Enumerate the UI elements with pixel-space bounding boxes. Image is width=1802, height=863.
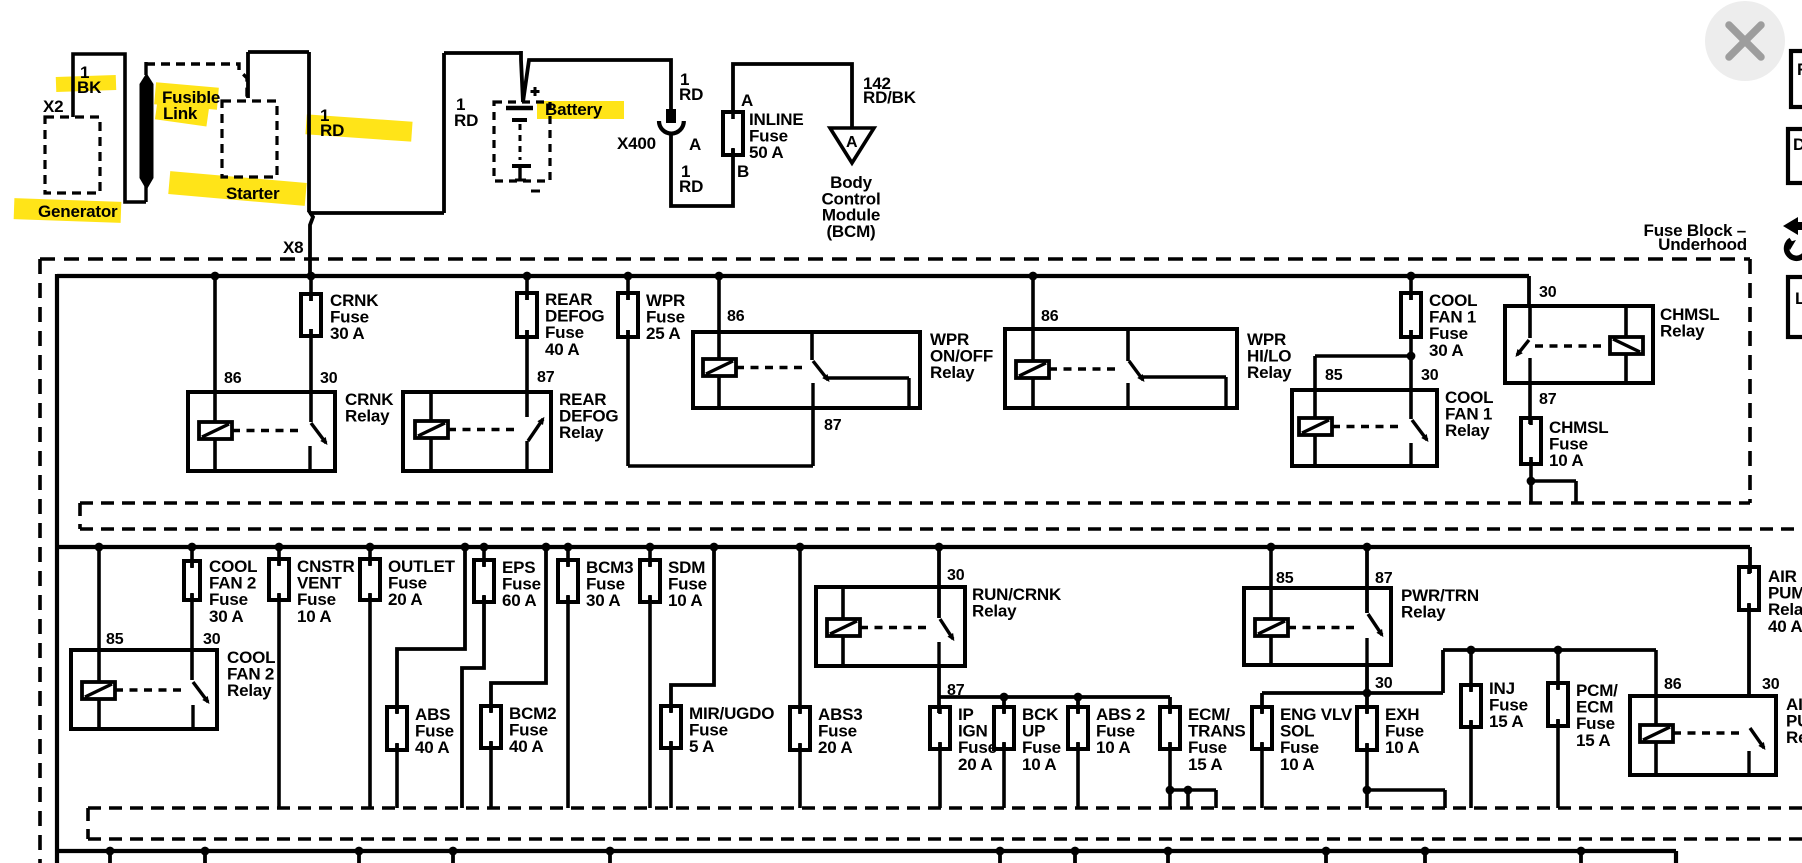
svg-text:85: 85 <box>1276 570 1294 587</box>
svg-text:30: 30 <box>1375 675 1393 692</box>
svg-text:87: 87 <box>537 369 555 386</box>
node CHMSL fuse output <box>1527 477 1536 486</box>
highlight Generator <box>14 198 122 223</box>
fuse IP IGN 20A <box>930 707 950 749</box>
svg-text:30 A: 30 A <box>586 591 620 610</box>
svg-text:Relay: Relay <box>1445 421 1490 440</box>
svg-text:Relay: Relay <box>930 363 975 382</box>
battery plates <box>506 106 533 111</box>
wire CHMSL relay 30 feed <box>1527 276 1531 306</box>
svg-text:Link: Link <box>163 104 198 123</box>
fuse ABS3 20A <box>790 707 810 750</box>
relay WPR HI/LO <box>1005 329 1237 408</box>
svg-text:B: B <box>737 162 749 181</box>
svg-text:X400: X400 <box>617 134 656 153</box>
svg-text:87: 87 <box>824 417 842 434</box>
wire PWR/TRN 30 distribution <box>1365 665 1369 713</box>
fuse PCM/ECM 15A <box>1556 650 1560 689</box>
wire CRNK 86 <box>213 276 217 422</box>
wire BCM2 fuse feed <box>491 547 546 712</box>
bus top rail <box>57 274 1529 278</box>
fuse MIR/UGDO 5A <box>661 706 681 748</box>
node COOL FAN1 85 branch <box>1407 352 1416 361</box>
svg-text:Generator: Generator <box>38 202 118 221</box>
fuse ECM/TRANS 15A <box>1160 707 1180 749</box>
relay RUN/CRNK <box>816 587 965 666</box>
wire X400 to inline fuse <box>671 134 733 206</box>
fuse INJ 15A <box>1469 650 1473 691</box>
svg-text:Underhood: Underhood <box>1658 235 1747 254</box>
svg-text:Relay: Relay <box>559 423 604 442</box>
fuse CRNK 30A <box>301 294 321 336</box>
wire inline fuse to BCM <box>733 64 852 128</box>
svg-text:40 A: 40 A <box>415 738 449 757</box>
svg-text:87: 87 <box>1539 391 1557 408</box>
wire generator to fusible link <box>73 54 146 202</box>
wire ABS fuse feed <box>397 547 465 713</box>
svg-text:10 A: 10 A <box>1280 755 1314 774</box>
svg-text:40 A: 40 A <box>545 340 579 359</box>
svg-text:30 A: 30 A <box>1429 341 1463 360</box>
offpage arrow left <box>1783 217 1802 235</box>
starter (dashed box) <box>222 101 277 177</box>
svg-text:Relay: Relay <box>1786 728 1802 747</box>
svg-text:25 A: 25 A <box>646 324 680 343</box>
svg-text:D: D <box>1793 135 1802 154</box>
junction dots bottom rail and stubs <box>106 847 115 856</box>
relay CHMSL <box>1505 306 1653 383</box>
svg-text:30: 30 <box>947 567 965 584</box>
svg-text:10 A: 10 A <box>1549 451 1583 470</box>
wire ECM/TRANS outputs <box>1168 743 1172 808</box>
svg-text:20 A: 20 A <box>818 738 852 757</box>
svg-text:Relay: Relay <box>1247 363 1292 382</box>
fuse CHMSL 10A <box>1528 383 1532 424</box>
svg-text:RD: RD <box>679 85 703 104</box>
svg-text:30 A: 30 A <box>209 607 243 626</box>
svg-text:86: 86 <box>224 370 242 387</box>
svg-text:RD: RD <box>320 121 344 140</box>
wire EXH outputs <box>1365 744 1369 808</box>
svg-text:Relay: Relay <box>1660 322 1705 341</box>
battery - sign <box>531 190 540 193</box>
fuse ENG VLV SOL 10A <box>1252 707 1272 749</box>
highlight 1 RD <box>305 114 412 141</box>
svg-text:60 A: 60 A <box>502 591 536 610</box>
svg-text:86: 86 <box>1664 676 1682 693</box>
wire MIR/UGDO fuse feed <box>671 547 714 712</box>
fuse EPS 60A <box>474 560 494 602</box>
wire WPR fuse to relay 87 <box>811 408 815 466</box>
fuse CNSTR VENT 10A <box>269 559 289 600</box>
wire RUN/CRNK 87 rail <box>937 666 941 713</box>
svg-text:Relay: Relay <box>1401 603 1446 622</box>
svg-text:30: 30 <box>1421 367 1439 384</box>
svg-text:15 A: 15 A <box>1576 731 1610 750</box>
wire into battery positive <box>521 51 523 102</box>
svg-text:30: 30 <box>320 370 338 387</box>
svg-text:A: A <box>846 134 858 151</box>
svg-text:86: 86 <box>727 308 745 325</box>
wire battery branch y213 <box>309 211 444 215</box>
highlight 1 BK <box>56 75 116 92</box>
svg-text:86: 86 <box>1041 308 1059 325</box>
svg-text:RD: RD <box>454 111 478 130</box>
fuse EXH 10A <box>1357 707 1377 750</box>
highlight Fusible Link <box>154 82 219 109</box>
fuse COOL FAN 1 30A <box>1401 293 1421 337</box>
svg-text:L: L <box>1795 289 1802 308</box>
bus middle rail <box>57 545 1750 549</box>
svg-text:10 A: 10 A <box>1096 738 1130 757</box>
offpage box R (cut) <box>1791 51 1802 107</box>
svg-text:Relay: Relay <box>345 407 390 426</box>
svg-text:30: 30 <box>1539 284 1557 301</box>
highlight Battery <box>537 101 624 119</box>
relay CRNK <box>188 392 335 471</box>
wire EPS output jog <box>462 596 484 808</box>
fuse BCM2 40A <box>481 706 501 748</box>
svg-text:10 A: 10 A <box>1385 738 1419 757</box>
fuse ABS 2 10A <box>1068 707 1088 749</box>
fusible link F1 <box>144 184 147 202</box>
bus left vertical <box>55 274 59 863</box>
svg-text:Battery: Battery <box>545 100 603 119</box>
inner dashed band upper <box>80 501 1750 505</box>
svg-text:(BCM): (BCM) <box>826 222 875 241</box>
inline fuse 50A <box>723 112 743 155</box>
bus bottom rail <box>57 849 1676 853</box>
close button <box>1705 1 1785 81</box>
svg-text:A: A <box>741 91 753 110</box>
svg-text:RD/BK: RD/BK <box>863 88 917 107</box>
svg-text:40 A: 40 A <box>509 737 543 756</box>
svg-text:R: R <box>1797 60 1802 79</box>
svg-text:Relay: Relay <box>972 602 1017 621</box>
relay AIR PUMP <box>1630 696 1776 775</box>
svg-text:85: 85 <box>106 631 124 648</box>
inner dashed band lower <box>88 806 1802 810</box>
junction dots top rail <box>211 272 220 281</box>
fuse OUTLET 20A <box>360 559 380 600</box>
svg-text:15 A: 15 A <box>1188 755 1222 774</box>
relay REAR DEFOG <box>403 392 551 471</box>
BCM input triangle A <box>830 128 874 163</box>
svg-text:20 A: 20 A <box>388 590 422 609</box>
svg-text:10 A: 10 A <box>1022 755 1056 774</box>
wire starter to node X8 <box>246 52 250 98</box>
generator X2 (dashed box) <box>45 117 100 193</box>
fuse ABS 40A <box>387 707 407 750</box>
svg-text:Relay: Relay <box>227 681 272 700</box>
svg-text:30: 30 <box>1762 676 1780 693</box>
svg-text:RD: RD <box>679 177 703 196</box>
connector X8 kink <box>309 211 313 278</box>
battery + sign <box>531 90 540 93</box>
offpage box D (cut) <box>1788 129 1802 183</box>
highlight Starter <box>168 171 306 206</box>
relay COOL FAN 2 <box>71 650 217 729</box>
junction dots middle rail <box>95 543 104 552</box>
svg-text:X2: X2 <box>43 97 63 116</box>
fuse BCM3 30A <box>558 560 578 602</box>
svg-text:87: 87 <box>1375 570 1393 587</box>
fuse block outer dashed boundary <box>40 257 1750 261</box>
svg-text:X8: X8 <box>283 238 303 257</box>
fuse SDM 10A <box>640 560 660 602</box>
svg-text:85: 85 <box>1325 367 1343 384</box>
svg-text:30: 30 <box>203 631 221 648</box>
svg-text:40 A: 40 A <box>1768 617 1802 636</box>
svg-text:10 A: 10 A <box>668 591 702 610</box>
fuse WPR 25A <box>618 293 638 337</box>
relay PWR/TRN <box>1244 588 1391 665</box>
svg-text:A: A <box>689 135 701 154</box>
wire battery to X400 <box>523 60 671 109</box>
svg-text:5 A: 5 A <box>689 737 714 756</box>
fuse COOL FAN 2 30A <box>184 561 200 600</box>
fuse AIR PUMP Relay 40A <box>1748 547 1752 573</box>
svg-text:50 A: 50 A <box>749 143 783 162</box>
svg-text:15 A: 15 A <box>1489 712 1523 731</box>
offpage rotate icon <box>1787 240 1802 258</box>
wire fusible link to starter (dashed) <box>146 64 247 99</box>
svg-text:20 A: 20 A <box>958 755 992 774</box>
fuse BCK UP 10A <box>994 707 1014 749</box>
svg-text:30 A: 30 A <box>330 324 364 343</box>
connector X400 <box>666 109 676 123</box>
offpage box L (cut) <box>1788 277 1802 337</box>
wire 1 RD starter feed <box>307 52 311 212</box>
svg-text:10 A: 10 A <box>297 607 331 626</box>
svg-text:Starter: Starter <box>226 184 280 203</box>
relay COOL FAN 1 <box>1292 390 1437 466</box>
wire 1 RD battery left leg <box>442 53 446 213</box>
fuse REAR DEFOG 40A <box>517 293 537 337</box>
battery B1 (dashed box) <box>494 102 550 181</box>
svg-text:BK: BK <box>77 78 102 97</box>
relay WPR ON/OFF <box>693 332 920 408</box>
